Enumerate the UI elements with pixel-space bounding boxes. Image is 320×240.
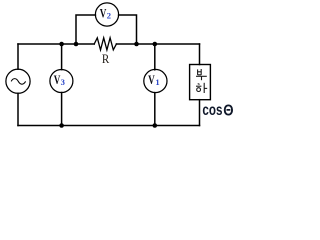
wire V2 left lead [76, 15, 95, 44]
wire left vertical upper [17, 44, 19, 69]
node junction dot top V1 [153, 42, 158, 47]
wire V2 right lead [119, 15, 137, 44]
label Hangul HA (load bottom char) [196, 83, 207, 93]
wire right vertical upper [199, 44, 201, 65]
node junction dot bottom V3 [59, 123, 64, 128]
node junction dot bottom V1 [153, 123, 158, 128]
label Hangul BU (load top char) [196, 69, 207, 80]
voltmeter V2 circle [95, 3, 118, 26]
wire V3 branch top [61, 44, 63, 70]
wire right vertical lower [199, 100, 201, 126]
node junction dot top V2-left [74, 42, 79, 47]
svg-text:3: 3 [61, 77, 65, 87]
svg-text:R: R [102, 52, 110, 66]
wire top horizontal left segment [18, 43, 94, 45]
node junction dot top V2-right [134, 42, 139, 47]
wire left vertical lower [17, 93, 19, 125]
wire V1 branch top [154, 44, 156, 70]
wire top horizontal right segment [116, 43, 199, 45]
AC source circle [6, 69, 30, 93]
resistor R [94, 38, 116, 50]
wire bottom horizontal [18, 125, 200, 127]
voltmeter V1 circle [144, 69, 167, 92]
wire V3 branch bottom [61, 93, 63, 126]
AC source sine symbol [11, 79, 25, 85]
node junction dot top V3 [59, 42, 64, 47]
voltmeter V3 circle [50, 70, 73, 93]
svg-text:Θ: Θ [223, 103, 233, 120]
svg-text:cos: cos [202, 102, 222, 119]
load box [190, 65, 211, 100]
wire V1 branch bottom [154, 93, 156, 126]
svg-text:V: V [100, 7, 107, 21]
svg-text:V: V [54, 73, 61, 87]
svg-text:1: 1 [155, 77, 159, 87]
svg-text:V: V [148, 73, 155, 87]
svg-text:2: 2 [107, 10, 111, 20]
